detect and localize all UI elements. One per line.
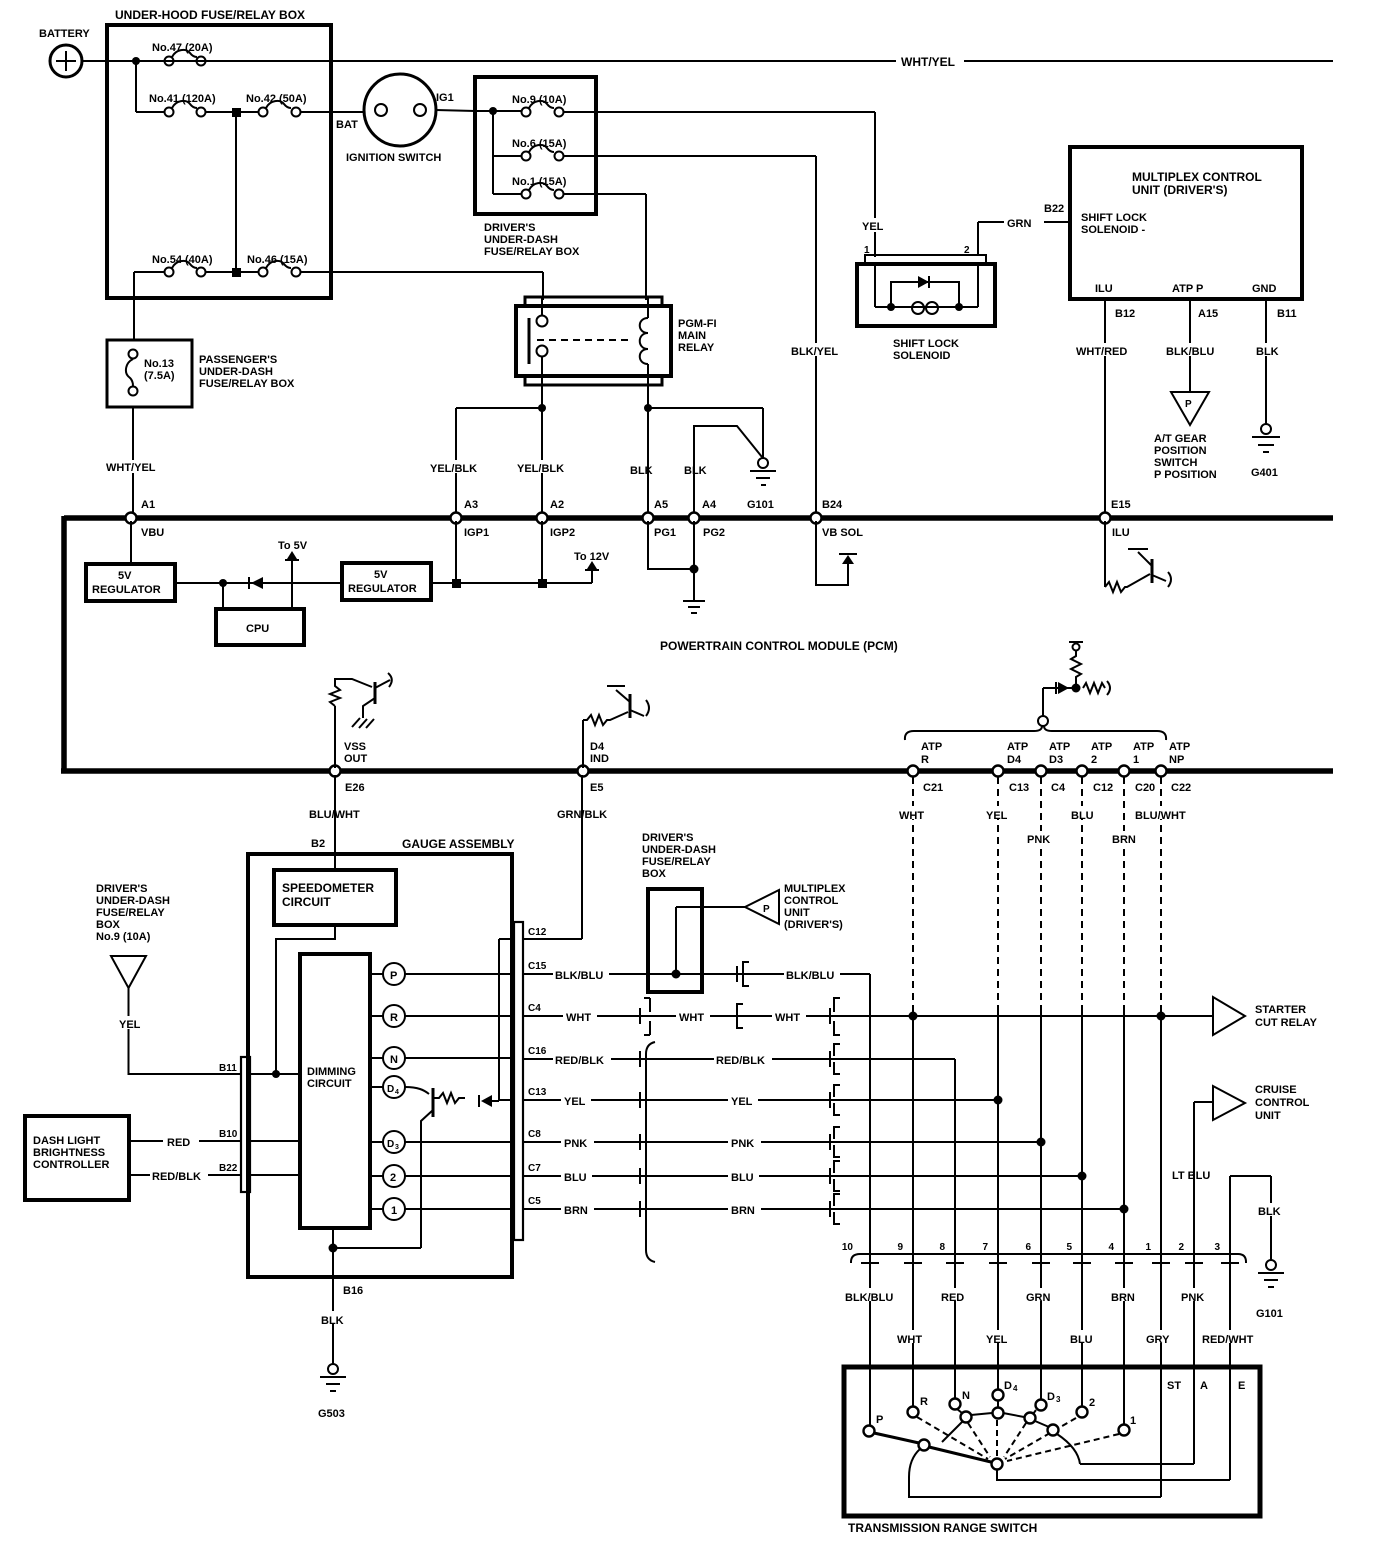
svg-text:DRIVER'S: DRIVER'S bbox=[642, 832, 694, 844]
svg-text:P POSITION: P POSITION bbox=[1154, 469, 1217, 481]
terminal E5 bbox=[578, 766, 589, 777]
svg-text:ATP: ATP bbox=[1133, 741, 1154, 753]
svg-text:PG2: PG2 bbox=[703, 527, 725, 539]
svg-text:SHIFT LOCK: SHIFT LOCK bbox=[893, 338, 959, 350]
svg-text:B22: B22 bbox=[1044, 203, 1064, 215]
solenoid internal circuit bbox=[875, 306, 978, 308]
svg-text:C22: C22 bbox=[1171, 782, 1191, 794]
fuse No.47 (20A) bbox=[165, 57, 174, 66]
D4 transistor and diode to C12/C13 bbox=[405, 1087, 429, 1094]
svg-text:B22: B22 bbox=[219, 1163, 238, 1174]
terminal A4 bbox=[689, 513, 700, 524]
contact 2 bbox=[1077, 1407, 1088, 1418]
cruise control unit triangle bbox=[1194, 1101, 1213, 1103]
wire RED B10 bbox=[129, 1140, 241, 1142]
svg-text:B24: B24 bbox=[822, 499, 843, 511]
svg-text:C12: C12 bbox=[528, 927, 547, 938]
arm to GRY path bbox=[909, 1449, 1161, 1497]
wire column pin4 BRN ATP 1 bbox=[1123, 777, 1125, 1008]
svg-text:C4: C4 bbox=[1051, 782, 1066, 794]
terminal C20 ATP 1 bbox=[1119, 766, 1130, 777]
TRS connector pins bbox=[861, 1262, 1239, 1264]
svg-text:PGM-FI: PGM-FI bbox=[678, 318, 717, 330]
svg-text:DASH LIGHT: DASH LIGHT bbox=[33, 1135, 101, 1147]
svg-text:BAT: BAT bbox=[336, 119, 358, 131]
svg-text:CPU: CPU bbox=[246, 623, 269, 635]
right driver's fuse box bbox=[648, 889, 702, 992]
svg-text:10: 10 bbox=[842, 1242, 854, 1253]
svg-text:A1: A1 bbox=[141, 499, 155, 511]
svg-text:B11: B11 bbox=[219, 1063, 237, 1074]
svg-text:YEL: YEL bbox=[119, 1019, 141, 1031]
svg-text:YEL/BLK: YEL/BLK bbox=[517, 463, 564, 475]
svg-text:WHT: WHT bbox=[897, 1334, 922, 1346]
fuse No.1 (15A) bbox=[522, 190, 531, 199]
wire dimming bottom to B16 bbox=[333, 1228, 421, 1364]
svg-text:C16: C16 bbox=[528, 1046, 547, 1057]
wire solenoid pin2 bbox=[977, 222, 979, 307]
indicator N bbox=[370, 1057, 514, 1059]
svg-text:C5: C5 bbox=[528, 1196, 541, 1207]
label BLU column bbox=[1069, 806, 1100, 819]
svg-text:No.6 (15A): No.6 (15A) bbox=[512, 138, 567, 150]
svg-text:(7.5A): (7.5A) bbox=[144, 370, 175, 382]
svg-text:SPEEDOMETER: SPEEDOMETER bbox=[282, 881, 374, 895]
svg-text:POSITION: POSITION bbox=[1154, 445, 1207, 457]
svg-text:CIRCUIT: CIRCUIT bbox=[307, 1078, 352, 1090]
svg-text:N: N bbox=[962, 1390, 970, 1402]
gauge assembly box bbox=[248, 854, 512, 1277]
A/T gear position switch P position triangle bbox=[1171, 392, 1209, 425]
svg-text:4: 4 bbox=[1108, 1242, 1114, 1253]
PCM bus line bottom bbox=[61, 768, 1333, 774]
svg-text:RELAY: RELAY bbox=[678, 342, 715, 354]
svg-text:ATP: ATP bbox=[921, 741, 942, 753]
long bracket connector column 1 bbox=[646, 1042, 655, 1262]
svg-text:DRIVER'S: DRIVER'S bbox=[96, 883, 148, 895]
svg-text:G101: G101 bbox=[1256, 1308, 1283, 1320]
terminal A5 bbox=[643, 513, 654, 524]
starter cut relay triangle bbox=[1213, 997, 1245, 1035]
svg-text:No.9 (10A): No.9 (10A) bbox=[96, 931, 151, 943]
svg-text:5V: 5V bbox=[118, 570, 132, 582]
svg-text:GRN: GRN bbox=[1007, 218, 1032, 230]
multiplex control unit (driver's) box bbox=[1070, 147, 1302, 299]
svg-text:E5: E5 bbox=[590, 782, 603, 794]
svg-text:IGP1: IGP1 bbox=[464, 527, 489, 539]
terminal C13 ATP D4 bbox=[993, 766, 1004, 777]
svg-text:C8: C8 bbox=[528, 1129, 541, 1140]
moving contact arm bbox=[874, 1433, 991, 1462]
wire No.9 output to shift lock bbox=[564, 112, 875, 257]
svg-text:STARTER: STARTER bbox=[1255, 1004, 1306, 1016]
CPU bbox=[216, 609, 304, 645]
svg-text:FUSE/RELAY BOX: FUSE/RELAY BOX bbox=[199, 378, 295, 390]
svg-text:BOX: BOX bbox=[96, 919, 121, 931]
svg-text:WHT: WHT bbox=[679, 1012, 704, 1024]
svg-text:PNK: PNK bbox=[1027, 834, 1050, 846]
wire A1 to 5V regulator bbox=[130, 521, 132, 564]
svg-text:2: 2 bbox=[1091, 754, 1097, 766]
svg-text:BLK/BLU: BLK/BLU bbox=[845, 1292, 893, 1304]
svg-text:BRN: BRN bbox=[1112, 834, 1136, 846]
connector WHT 1 bbox=[639, 1008, 641, 1024]
ignition switch bbox=[364, 74, 436, 146]
svg-text:YEL/BLK: YEL/BLK bbox=[430, 463, 477, 475]
svg-text:8: 8 bbox=[939, 1242, 945, 1253]
battery bbox=[50, 45, 82, 77]
svg-text:IND: IND bbox=[590, 753, 609, 765]
svg-text:TRANSMISSION RANGE SWITCH: TRANSMISSION RANGE SWITCH bbox=[848, 1521, 1037, 1535]
svg-text:YEL: YEL bbox=[564, 1096, 586, 1108]
svg-text:IGP2: IGP2 bbox=[550, 527, 575, 539]
svg-text:ATP P: ATP P bbox=[1172, 283, 1203, 295]
wire relay coil to A5 and G101 bbox=[648, 385, 763, 515]
svg-text:VBU: VBU bbox=[141, 527, 164, 539]
pivot contact bbox=[992, 1459, 1003, 1470]
node relay switch junction bbox=[538, 404, 546, 412]
terminal A3 bbox=[451, 513, 462, 524]
svg-text:RED/BLK: RED/BLK bbox=[555, 1055, 604, 1067]
svg-text:WHT: WHT bbox=[775, 1012, 800, 1024]
svg-text:UNIT (DRIVER'S): UNIT (DRIVER'S) bbox=[1132, 183, 1228, 197]
svg-text:R: R bbox=[920, 1396, 928, 1408]
node relay coil junction bbox=[644, 404, 652, 412]
svg-text:E15: E15 bbox=[1111, 499, 1131, 511]
svg-text:ATP: ATP bbox=[1169, 741, 1190, 753]
wire column pin9 WHT ATP R bbox=[912, 777, 914, 1008]
ground G101 relay bbox=[758, 458, 768, 468]
connector RED/BLK bbox=[639, 1051, 641, 1067]
svg-text:No.41 (120A): No.41 (120A) bbox=[149, 93, 216, 105]
svg-text:A: A bbox=[1200, 1380, 1208, 1392]
fuse No.42 (50A) bbox=[259, 108, 268, 117]
svg-text:2: 2 bbox=[390, 1172, 396, 1184]
wire row1 inside box bbox=[107, 60, 164, 62]
svg-text:(DRIVER'S): (DRIVER'S) bbox=[784, 919, 843, 931]
svg-text:GAUGE ASSEMBLY: GAUGE ASSEMBLY bbox=[402, 837, 514, 851]
wire column pin6 GRN ATP D3 bbox=[1040, 777, 1042, 1008]
label BLK/BLU trs bbox=[843, 1288, 899, 1301]
label YEL column bbox=[984, 806, 1014, 819]
svg-text:BRN: BRN bbox=[564, 1205, 588, 1217]
svg-text:P: P bbox=[876, 1414, 883, 1426]
svg-text:CUT RELAY: CUT RELAY bbox=[1255, 1017, 1318, 1029]
svg-text:1: 1 bbox=[1130, 1415, 1136, 1427]
wire B22 into dimming bbox=[250, 1174, 300, 1176]
svg-text:C21: C21 bbox=[923, 782, 943, 794]
svg-text:C13: C13 bbox=[1009, 782, 1029, 794]
wire GRN to multiplex bbox=[978, 221, 1070, 223]
label GRY trs bbox=[1144, 1330, 1178, 1343]
svg-text:A4: A4 bbox=[702, 499, 717, 511]
svg-text:C13: C13 bbox=[528, 1087, 547, 1098]
svg-text:ILU: ILU bbox=[1095, 283, 1113, 295]
svg-text:D4: D4 bbox=[590, 741, 605, 753]
wire B24 VB SOL internal bbox=[816, 521, 848, 585]
svg-text:SOLENOID -: SOLENOID - bbox=[1081, 224, 1146, 236]
contact 1 bbox=[1119, 1425, 1130, 1436]
label YEL trs bbox=[983, 1330, 1015, 1343]
svg-text:P: P bbox=[1185, 399, 1192, 410]
svg-text:To 5V: To 5V bbox=[278, 540, 308, 552]
svg-text:3: 3 bbox=[1056, 1395, 1061, 1404]
label BRN trs bbox=[1108, 1288, 1144, 1301]
wire B2 BLU/WHT bbox=[334, 775, 336, 870]
svg-text:5V: 5V bbox=[374, 569, 388, 581]
svg-text:P: P bbox=[390, 970, 397, 982]
wire speedometer to B11 row bbox=[276, 925, 335, 1074]
wire battery row1 WHT/YEL bbox=[82, 60, 1333, 62]
terminal E26 bbox=[330, 766, 341, 777]
connector YEL bbox=[639, 1092, 641, 1108]
fuse box triangle bbox=[111, 956, 146, 988]
svg-text:RED/BLK: RED/BLK bbox=[152, 1171, 201, 1183]
wire BLU row C7 bbox=[523, 1175, 1082, 1177]
fuse No.6 (15A) bbox=[522, 152, 531, 161]
svg-text:R: R bbox=[390, 1012, 398, 1024]
svg-text:No.9 (10A): No.9 (10A) bbox=[512, 94, 567, 106]
wire E contact to G101 bridge bbox=[1230, 1176, 1271, 1260]
svg-text:BLK: BLK bbox=[630, 465, 653, 477]
svg-text:P: P bbox=[763, 904, 770, 915]
svg-text:YEL: YEL bbox=[862, 221, 884, 233]
node IG1 junction bbox=[489, 107, 497, 115]
shift lock solenoid bbox=[858, 218, 890, 232]
svg-text:A3: A3 bbox=[464, 499, 478, 511]
wire row3 down to passenger box bbox=[133, 272, 135, 340]
wire column pin2 PNK LT BLU bbox=[1193, 1102, 1195, 1464]
svg-text:REGULATOR: REGULATOR bbox=[348, 583, 417, 595]
pivot to E path bbox=[997, 1469, 1230, 1480]
svg-text:3: 3 bbox=[395, 1144, 399, 1151]
transmission range switch box bbox=[844, 1367, 1260, 1516]
svg-text:GRY: GRY bbox=[1146, 1334, 1170, 1346]
svg-text:CRUISE: CRUISE bbox=[1255, 1084, 1297, 1096]
svg-text:IGNITION SWITCH: IGNITION SWITCH bbox=[346, 152, 441, 164]
svg-text:No.13: No.13 bbox=[144, 358, 174, 370]
brace over ATP terminals bbox=[1038, 716, 1048, 726]
label WHT/YEL row1 bbox=[896, 54, 964, 68]
svg-text:WHT/YEL: WHT/YEL bbox=[106, 462, 156, 474]
svg-text:PNK: PNK bbox=[564, 1138, 587, 1150]
wire PG1 PG2 internal ground bbox=[648, 521, 694, 600]
ground G101 bottom bbox=[1266, 1260, 1276, 1270]
svg-text:DRIVER'S: DRIVER'S bbox=[484, 222, 536, 234]
label RED/BLK right bbox=[714, 1052, 772, 1065]
svg-text:BLK/BLU: BLK/BLU bbox=[1166, 346, 1214, 358]
wire A3 to rail bbox=[455, 521, 457, 583]
svg-text:PASSENGER'S: PASSENGER'S bbox=[199, 354, 277, 366]
resistor right of pull-up bbox=[1083, 681, 1110, 695]
svg-text:UNDER-DASH: UNDER-DASH bbox=[484, 234, 558, 246]
terminal B24 bbox=[811, 513, 822, 524]
svg-text:YEL: YEL bbox=[986, 1334, 1008, 1346]
svg-text:RED: RED bbox=[167, 1137, 190, 1149]
label BLK bbox=[1256, 1203, 1286, 1216]
fuse No.54 (40A) bbox=[165, 268, 174, 277]
wire No.1 output to relay coil bbox=[564, 194, 646, 300]
svg-text:UNDER-DASH: UNDER-DASH bbox=[96, 895, 170, 907]
connector BLU bbox=[639, 1168, 641, 1184]
svg-text:BLU: BLU bbox=[731, 1172, 754, 1184]
svg-text:D: D bbox=[1004, 1380, 1012, 1392]
VSS OUT internal circuit bbox=[330, 679, 372, 768]
terminal A2 bbox=[537, 513, 548, 524]
svg-text:YEL: YEL bbox=[731, 1096, 753, 1108]
ground G401 bbox=[1261, 424, 1271, 434]
svg-text:N: N bbox=[390, 1054, 398, 1066]
diode in solenoid bbox=[918, 276, 929, 288]
svg-text:5: 5 bbox=[1066, 1242, 1072, 1253]
wire BLK/BLU row C15 bbox=[523, 973, 870, 975]
D3 contact to A path bbox=[1057, 1434, 1194, 1464]
terminal A1 bbox=[126, 513, 137, 524]
dash light brightness controller bbox=[25, 1116, 129, 1200]
svg-text:D4: D4 bbox=[1007, 754, 1022, 766]
svg-text:4: 4 bbox=[1013, 1384, 1018, 1393]
wire column pin7 YEL ATP D4 bbox=[997, 777, 999, 1008]
svg-text:B10: B10 bbox=[219, 1129, 238, 1140]
PCM bus line top bbox=[64, 515, 1333, 521]
svg-text:WHT/YEL: WHT/YEL bbox=[901, 55, 955, 69]
contact D3 side bbox=[1048, 1425, 1059, 1436]
svg-text:BLK: BLK bbox=[1258, 1206, 1281, 1218]
svg-text:MULTIPLEX CONTROL: MULTIPLEX CONTROL bbox=[1132, 170, 1262, 184]
svg-text:No.47 (20A): No.47 (20A) bbox=[152, 42, 213, 54]
svg-text:A2: A2 bbox=[550, 499, 564, 511]
svg-text:6: 6 bbox=[1025, 1242, 1031, 1253]
contact P bbox=[864, 1426, 875, 1437]
fuse No.13 (7.5A) bbox=[129, 350, 138, 359]
svg-text:RED: RED bbox=[941, 1292, 964, 1304]
gauge connector bar right bbox=[514, 922, 523, 1240]
node row3 junction bbox=[232, 268, 241, 277]
svg-text:C15: C15 bbox=[528, 961, 547, 972]
connector PNK bbox=[639, 1134, 641, 1150]
svg-text:BRN: BRN bbox=[1111, 1292, 1135, 1304]
ATP pull-up network bbox=[1073, 644, 1080, 651]
svg-text:B12: B12 bbox=[1115, 308, 1135, 320]
svg-text:LT BLU: LT BLU bbox=[1172, 1170, 1210, 1182]
wire column pin5 BLU ATP 2 bbox=[1081, 777, 1083, 1008]
svg-text:BLK: BLK bbox=[1256, 346, 1279, 358]
svg-text:G401: G401 bbox=[1251, 467, 1278, 479]
wire ATP P BLK/BLU bbox=[1189, 299, 1191, 392]
svg-text:WHT: WHT bbox=[899, 810, 924, 822]
svg-text:UNIT: UNIT bbox=[784, 907, 810, 919]
svg-text:UNDER-DASH: UNDER-DASH bbox=[642, 844, 716, 856]
label LT BLU bbox=[1171, 1167, 1217, 1180]
contact D4 bbox=[993, 1390, 1004, 1401]
wire WHT row C4 to starter cut relay bbox=[523, 1015, 1213, 1017]
svg-text:A5: A5 bbox=[654, 499, 668, 511]
fuse No.9 (10A) bbox=[522, 108, 531, 117]
label YEL/BLK A3 bbox=[429, 460, 483, 473]
svg-text:MAIN: MAIN bbox=[678, 330, 706, 342]
connector WHT 3 bbox=[829, 1008, 831, 1024]
svg-text:2: 2 bbox=[1178, 1242, 1184, 1253]
svg-text:No.54 (40A): No.54 (40A) bbox=[152, 254, 213, 266]
svg-text:UNIT: UNIT bbox=[1255, 1110, 1281, 1122]
svg-text:C4: C4 bbox=[528, 1003, 541, 1014]
svg-text:WHT/RED: WHT/RED bbox=[1076, 346, 1127, 358]
svg-text:SWITCH: SWITCH bbox=[1154, 457, 1197, 469]
dimming circuit box bbox=[300, 954, 370, 1228]
node CPU tap bbox=[219, 579, 227, 587]
contact bridge polyline bbox=[942, 1409, 1049, 1442]
svg-text:B2: B2 bbox=[311, 838, 325, 850]
svg-text:1: 1 bbox=[391, 1205, 397, 1217]
svg-text:NP: NP bbox=[1169, 754, 1184, 766]
terminal C21 ATP R bbox=[908, 766, 919, 777]
wire E15 ILU internal transistor bbox=[1105, 521, 1150, 592]
svg-text:No.1 (15A): No.1 (15A) bbox=[512, 176, 567, 188]
wire column pin8 RED bbox=[954, 1059, 956, 1399]
internal 5V rail bbox=[175, 582, 592, 584]
svg-text:7: 7 bbox=[982, 1242, 988, 1253]
TRS connector bracket bbox=[851, 1254, 1246, 1263]
svg-text:YEL: YEL bbox=[986, 810, 1008, 822]
wire B10 into dimming bbox=[250, 1140, 300, 1142]
svg-text:CIRCUIT: CIRCUIT bbox=[282, 895, 331, 909]
PGM-FI main relay bbox=[525, 297, 662, 306]
svg-text:No.42 (50A): No.42 (50A) bbox=[246, 93, 307, 105]
svg-text:CONTROL: CONTROL bbox=[784, 895, 839, 907]
wire column pin10 BLK/BLU to P bbox=[869, 974, 871, 1426]
svg-text:BLK: BLK bbox=[321, 1315, 344, 1327]
svg-text:REGULATOR: REGULATOR bbox=[92, 584, 161, 596]
wire B11 into dimming bbox=[250, 1073, 300, 1075]
wire relay switch to A2/A3 bbox=[456, 385, 542, 515]
wire A4 PG2 to G101 bbox=[694, 426, 762, 515]
label GRN trs bbox=[1023, 1288, 1059, 1301]
svg-text:BLK/BLU: BLK/BLU bbox=[786, 970, 834, 982]
gauge connector bar left bbox=[241, 1057, 250, 1192]
label BLK/YEL bbox=[789, 343, 841, 356]
label PNK trs bbox=[1178, 1288, 1214, 1301]
under-hood fuse/relay box bbox=[107, 25, 331, 298]
wire RED/BLK row C16 bbox=[523, 1058, 955, 1060]
svg-text:BATTERY: BATTERY bbox=[39, 28, 90, 40]
node battery junction bbox=[132, 57, 140, 65]
svg-text:BLU: BLU bbox=[564, 1172, 587, 1184]
svg-text:SOLENOID: SOLENOID bbox=[893, 350, 951, 362]
svg-text:A15: A15 bbox=[1198, 308, 1218, 320]
svg-text:FUSE/RELAY: FUSE/RELAY bbox=[96, 907, 165, 919]
svg-text:PNK: PNK bbox=[1181, 1292, 1204, 1304]
svg-text:DIMMING: DIMMING bbox=[307, 1066, 356, 1078]
svg-text:ATP: ATP bbox=[1007, 741, 1028, 753]
svg-text:A/T GEAR: A/T GEAR bbox=[1154, 433, 1207, 445]
terminal E15 bbox=[1100, 513, 1111, 524]
svg-text:BLK/YEL: BLK/YEL bbox=[791, 346, 838, 358]
wire YEL row C13 bbox=[523, 1099, 998, 1101]
label BLU trs bbox=[1067, 1330, 1099, 1343]
svg-text:FUSE/RELAY: FUSE/RELAY bbox=[642, 856, 711, 868]
label WHT 1 bbox=[563, 1009, 597, 1022]
fuse No.41 (120A) bbox=[165, 108, 174, 117]
svg-text:D3: D3 bbox=[1049, 754, 1063, 766]
svg-text:BOX: BOX bbox=[642, 868, 667, 880]
svg-text:IG1: IG1 bbox=[436, 92, 454, 104]
wire PNK row C8 bbox=[523, 1141, 1041, 1143]
wire row2 bbox=[136, 111, 365, 113]
terminal C4 ATP D3 bbox=[1036, 766, 1047, 777]
svg-text:MULTIPLEX: MULTIPLEX bbox=[784, 883, 846, 895]
contact N lower bbox=[961, 1412, 972, 1423]
svg-text:UNDER-HOOD FUSE/RELAY BOX: UNDER-HOOD FUSE/RELAY BOX bbox=[115, 8, 305, 22]
